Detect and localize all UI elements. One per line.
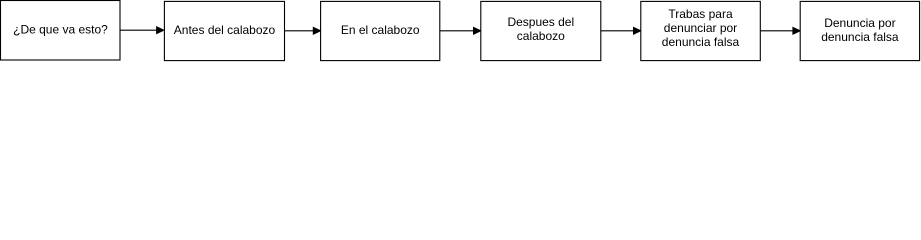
svg-text:denuncia falsa: denuncia falsa: [662, 35, 740, 49]
box: En el calabozo: [321, 1, 440, 60]
box: Antes del calabozo: [164, 1, 284, 60]
box: Denuncia por denuncia falsa: [800, 1, 919, 60]
svg-text:Despues del: Despues del: [507, 15, 574, 29]
wire: arrow 5: [760, 27, 800, 34]
box: Trabas para denunciar por denuncia falsa: [641, 1, 761, 60]
wire: arrow 3: [440, 27, 481, 34]
svg-text:Trabas para: Trabas para: [668, 7, 733, 21]
svg-text:Denuncia por: Denuncia por: [824, 16, 895, 30]
wire: arrow 1: [120, 27, 164, 34]
svg-text:¿De que va esto?: ¿De que va esto?: [13, 23, 108, 37]
svg-text:Antes del calabozo: Antes del calabozo: [174, 23, 276, 37]
svg-text:calabozo: calabozo: [517, 29, 565, 43]
wire: arrow 4: [601, 27, 641, 34]
svg-text:denunciar por: denunciar por: [664, 21, 737, 35]
wire: arrow 2: [285, 27, 321, 34]
svg-text:En el calabozo: En el calabozo: [341, 23, 420, 37]
svg-text:denuncia falsa: denuncia falsa: [821, 30, 899, 44]
box: ¿De que va esto?: [1, 1, 121, 61]
box: Despues del calabozo: [481, 1, 601, 60]
